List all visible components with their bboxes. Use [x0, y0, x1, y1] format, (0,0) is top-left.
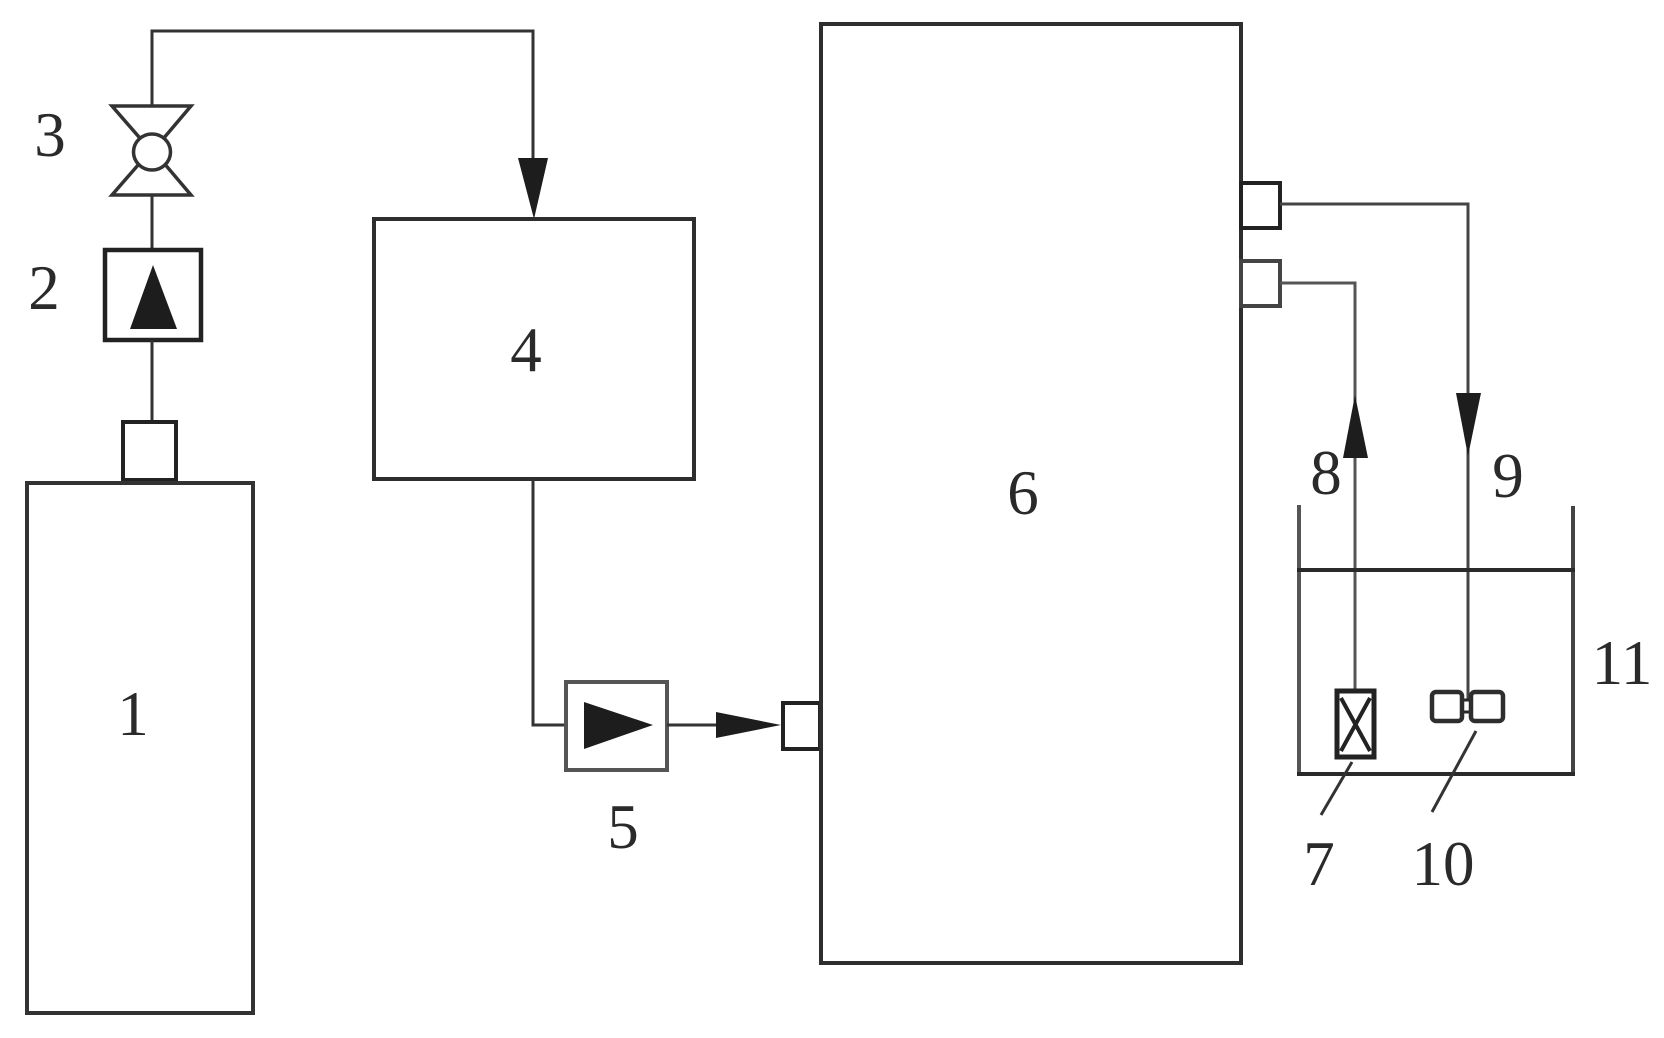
chamber 6 [821, 24, 1241, 963]
wire pump 5 to chamber port [667, 724, 722, 727]
svg-text:7: 7 [1303, 829, 1335, 899]
svg-text:1: 1 [117, 679, 149, 749]
outlet port upper on chamber 6 [1241, 183, 1280, 228]
cylinder neck [123, 422, 176, 480]
arrow into chamber 6 [716, 712, 781, 738]
svg-text:6: 6 [1007, 458, 1039, 528]
bubbler 7 [1337, 691, 1374, 757]
svg-text:8: 8 [1310, 438, 1342, 508]
tank 11 right wall [1571, 506, 1575, 776]
svg-text:2: 2 [28, 253, 60, 323]
stirrer 10 [1432, 692, 1503, 721]
arrow down on wire 9 [1456, 393, 1481, 456]
wire unit 4 to pump 5 [533, 479, 568, 725]
svg-text:3: 3 [34, 100, 66, 170]
regulator 2 [105, 250, 201, 340]
wire valve 3 to regulator 2 [151, 194, 154, 250]
leader line for 7 [1321, 762, 1352, 815]
arrow up on wire 8 [1343, 395, 1368, 458]
wire top from valve 3 to unit 4 [152, 31, 533, 168]
arrow into unit 4 [518, 158, 548, 219]
svg-text:11: 11 [1592, 628, 1653, 698]
wire 9 from upper port to stirrer 10 [1280, 204, 1468, 711]
svg-text:9: 9 [1492, 441, 1524, 511]
unit 4 [374, 219, 694, 479]
wire 8 from lower port to bubbler 7 [1280, 283, 1355, 692]
valve 3 [112, 106, 191, 195]
wire regulator 2 to cylinder neck [151, 340, 154, 424]
svg-text:4: 4 [510, 315, 542, 385]
leader line for 10 [1432, 731, 1476, 812]
inlet port on chamber 6 [783, 703, 820, 749]
outlet port lower on chamber 6 [1241, 261, 1280, 306]
tank 11 left wall [1297, 505, 1301, 776]
liquid level line in tank 11 [1297, 568, 1575, 572]
gas cylinder 1 [27, 483, 253, 1013]
pump 5 [566, 682, 667, 770]
tank 11 bottom [1297, 772, 1575, 776]
svg-text:10: 10 [1412, 829, 1475, 899]
svg-text:5: 5 [607, 792, 639, 862]
